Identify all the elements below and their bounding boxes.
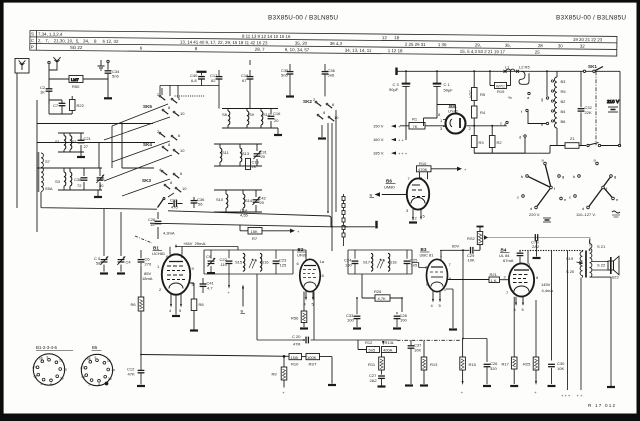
voltage selector 110-127V xyxy=(569,158,620,218)
svg-text:SK1: SK1 xyxy=(588,64,597,69)
output transformer core bar xyxy=(585,251,587,278)
svg-text:g: g xyxy=(541,97,543,102)
svg-text:150 V: 150 V xyxy=(373,124,384,129)
wire B5 cathode row y125.8 xyxy=(467,124,507,136)
long wire y354 bottom xyxy=(141,355,289,357)
svg-text:10: 10 xyxy=(59,359,63,363)
svg-text:2o: 2o xyxy=(112,368,116,372)
capacitor C34 5n6 xyxy=(105,63,121,98)
svg-text:220 V.: 220 V. xyxy=(529,212,540,217)
capacitor C6 270 xyxy=(138,250,152,267)
svg-text:R26: R26 xyxy=(374,289,382,294)
wire y223 to terminal xyxy=(344,226,348,228)
svg-text:5n6: 5n6 xyxy=(112,74,119,79)
vertical bundle wires xyxy=(111,126,113,168)
svg-text:S5A: S5A xyxy=(45,186,53,191)
agc dash-dot diagonal xyxy=(135,236,152,243)
tone coil S19 S20 xyxy=(566,250,583,277)
capacitor C24 190 xyxy=(344,250,358,274)
svg-text:C 20: C 20 xyxy=(292,334,301,339)
svg-text:B2: B2 xyxy=(298,247,304,252)
wire 60V node xyxy=(440,244,480,259)
resistor R6 xyxy=(131,265,144,354)
resistor RS2 xyxy=(467,227,484,251)
capacitor C30 10K xyxy=(548,361,566,386)
wire antenna box down xyxy=(16,73,18,208)
svg-text:+ +: + + xyxy=(398,138,404,143)
svg-text:R1: R1 xyxy=(412,117,418,122)
svg-text:15K: 15K xyxy=(251,229,258,234)
tuning indicator B6 UM80 xyxy=(384,176,429,214)
resistor R8 xyxy=(190,283,204,331)
wire antenna to LM7 xyxy=(49,70,69,79)
wire y85.5 to SK5 xyxy=(160,86,219,95)
IF1 coil S16 xyxy=(260,253,269,271)
wire diagonal links from switch banks xyxy=(104,104,174,197)
capacitor C26 15 xyxy=(148,212,161,239)
coupling drop x567 xyxy=(561,251,571,399)
svg-text:LM7: LM7 xyxy=(71,77,80,82)
resistor R56 xyxy=(291,292,308,329)
capacitor C41 4,7 xyxy=(200,278,215,293)
svg-text:C21: C21 xyxy=(84,136,92,141)
svg-text:o8: o8 xyxy=(87,357,91,361)
bundle drops to B1 caps xyxy=(104,209,121,256)
svg-text:145V: 145V xyxy=(541,282,551,287)
svg-text:B1: B1 xyxy=(153,246,159,251)
svg-text:2, 7, 21,30, 10, 5, 3: 2, 7, 21,30, 10, 5, 34, 8 6 12, 32 xyxy=(38,38,119,44)
long wire left rail to switch (y208) xyxy=(41,192,157,209)
filter LM7 R50 xyxy=(69,76,83,90)
svg-text:50µF: 50µF xyxy=(389,87,399,92)
mains dash-dot line xyxy=(595,71,597,145)
wire PSU bottom y153 xyxy=(474,146,550,154)
capacitor C26 320 xyxy=(483,361,498,386)
svg-text:210 V: 210 V xyxy=(607,99,620,104)
svg-text:10K: 10K xyxy=(557,366,564,371)
svg-text:28, 7: 28, 7 xyxy=(255,47,265,52)
label 85V 18mA xyxy=(142,271,153,281)
resistor R11 xyxy=(368,353,384,371)
svg-text:R15: R15 xyxy=(469,362,477,367)
IF1 coil S15 xyxy=(235,253,245,272)
ground under S1 cluster xyxy=(77,152,85,157)
wire right mains drop xyxy=(619,71,621,145)
svg-text:R17: R17 xyxy=(502,362,510,367)
svg-text:110: 110 xyxy=(221,262,228,267)
svg-text:SG 22: SG 22 xyxy=(70,45,83,50)
capacitor C29 xyxy=(462,247,480,263)
svg-text:67mA: 67mA xyxy=(503,258,514,263)
IF2 coil S17 xyxy=(363,253,373,271)
battery 210V xyxy=(607,99,620,112)
svg-text:R2: R2 xyxy=(497,140,503,145)
svg-text:10: 10 xyxy=(107,359,111,363)
svg-text:35,: 35, xyxy=(505,43,511,48)
svg-text:9: 9 xyxy=(95,356,97,360)
svg-text:o7: o7 xyxy=(81,366,85,370)
svg-text:S2: S2 xyxy=(72,139,78,144)
svg-text:R11: R11 xyxy=(368,362,376,367)
svg-text:8 11 13 9 12 14 10 15: 8 11 13 9 12 14 10 15 16 xyxy=(242,34,291,39)
svg-text:72: 72 xyxy=(77,183,82,188)
svg-text:SK5: SK5 xyxy=(143,104,152,109)
svg-text:7n5: 7n5 xyxy=(411,263,418,268)
ground below C34 xyxy=(104,97,112,99)
svg-text:1a: 1a xyxy=(320,259,325,264)
terminal bar top feed xyxy=(395,68,397,76)
potentiometer box R10 1N5 xyxy=(289,354,302,367)
capacitor C7 + resistor R22 xyxy=(49,96,85,114)
switch position table band xyxy=(30,31,617,57)
svg-text:56: 56 xyxy=(198,202,203,207)
svg-text:c: c xyxy=(500,121,502,126)
svg-text:R 17 012: R 17 012 xyxy=(588,403,616,408)
ground top xyxy=(98,60,110,70)
B4 pin3 stub xyxy=(527,251,529,264)
svg-text:110–127 V.: 110–127 V. xyxy=(576,212,596,217)
dial bus with ferrite ticks xyxy=(342,194,345,246)
svg-text:28: 28 xyxy=(538,43,543,48)
svg-text:160 V.: 160 V. xyxy=(373,137,384,142)
B4 bottom pins 4 5 xyxy=(514,297,525,312)
svg-text:C 1: C 1 xyxy=(444,82,451,87)
svg-text:270: 270 xyxy=(145,262,152,267)
svg-text:58: 58 xyxy=(96,261,101,266)
svg-text:4,3mA: 4,3mA xyxy=(163,231,175,236)
capacitor C23 125 xyxy=(273,250,288,274)
svg-text:+84V 29mA.: +84V 29mA. xyxy=(183,241,206,246)
svg-text:3o: 3o xyxy=(108,377,112,381)
svg-text:S: S xyxy=(31,32,34,37)
tuned circuit S3 S4 C38 C40 xyxy=(55,168,105,190)
wire SK2 drops x328 x332 x336 xyxy=(328,110,336,251)
svg-text:13, 14 41 40 9, 17, 22, 29,: 13, 14 41 40 9, 17, 22, 29, 15 18 11 42 … xyxy=(180,40,268,46)
svg-text:R13: R13 xyxy=(430,362,438,367)
resistor R17 xyxy=(502,357,519,386)
svg-text:g: g xyxy=(614,174,616,179)
capacitor C36 56 xyxy=(191,197,206,208)
svg-text:9, 10, 34, 57: 9, 10, 34, 57 xyxy=(285,47,310,52)
wire SK5 branch x122 xyxy=(37,124,153,169)
trimmer C5 58 xyxy=(94,256,108,274)
svg-text:R50: R50 xyxy=(72,84,80,89)
capacitor C1 50uF xyxy=(424,71,454,126)
volume control boxes R12 R14L xyxy=(358,340,397,353)
B1 cathode ground xyxy=(172,295,180,317)
svg-text:RS2: RS2 xyxy=(467,236,476,241)
svg-text:5n6: 5n6 xyxy=(281,73,288,78)
screen drop to R25 xyxy=(535,300,537,357)
svg-text:R10: R10 xyxy=(291,362,299,367)
svg-text:C7: C7 xyxy=(53,103,59,108)
resistor R10 470K xyxy=(417,161,468,179)
svg-text:10: 10 xyxy=(180,111,185,116)
svg-text:S15: S15 xyxy=(235,260,243,265)
lamp terminal circle xyxy=(527,92,530,100)
resistor R21 1K xyxy=(448,272,510,283)
svg-text:R6: R6 xyxy=(131,302,137,307)
svg-text:o7: o7 xyxy=(33,366,37,370)
wire bundle x99 to S3 cluster xyxy=(98,143,100,169)
svg-text:B4: B4 xyxy=(501,248,507,253)
label 84V 29mA on wire xyxy=(176,241,238,250)
svg-text:67: 67 xyxy=(242,78,247,83)
C22 ground + xyxy=(207,273,231,295)
wires C17 C18 down to S8 unit xyxy=(219,60,250,109)
capacitor C22 110 xyxy=(220,250,233,286)
switch SK1 xyxy=(557,64,620,73)
svg-text:R25: R25 xyxy=(523,362,531,367)
svg-text:+ + +: + + + xyxy=(398,151,408,156)
svg-text:20: 20 xyxy=(260,200,265,205)
svg-text:B5: B5 xyxy=(449,103,455,108)
B3 bottom pins 4 5 xyxy=(431,291,442,308)
antenna coil S7 with core xyxy=(37,152,53,192)
svg-text:320: 320 xyxy=(490,366,497,371)
svg-text:3o: 3o xyxy=(60,377,64,381)
svg-text:c: c xyxy=(569,195,571,200)
resistor R3 xyxy=(471,136,484,154)
svg-text:S16: S16 xyxy=(262,260,270,265)
wire y212 SK2 loop xyxy=(168,211,331,227)
switch contact on mains xyxy=(587,143,621,147)
pentode B2 UF89 xyxy=(297,247,325,292)
capacitor C32 xyxy=(578,71,593,145)
svg-text:470: 470 xyxy=(171,205,178,210)
svg-text:SK4: SK4 xyxy=(143,142,152,147)
trimmer C9 xyxy=(206,250,215,274)
core arrows S17 S18 xyxy=(377,259,384,269)
185V tap row xyxy=(373,151,408,157)
svg-text:S1: S1 xyxy=(55,139,61,144)
resistor R2 xyxy=(489,126,502,153)
switch bank SK2 xyxy=(303,97,339,121)
svg-text:1 12 18: 1 12 18 xyxy=(388,48,403,53)
svg-text:2o: 2o xyxy=(64,368,68,372)
resistor R4 NTC stack xyxy=(468,71,486,126)
svg-text:125: 125 xyxy=(280,263,287,268)
fuse Z1 xyxy=(550,136,586,148)
box RST 100K xyxy=(302,354,337,386)
svg-text:R7: R7 xyxy=(252,236,258,241)
IF2 transformer rails xyxy=(348,250,412,274)
svg-text:UBC 81: UBC 81 xyxy=(420,253,435,258)
ground under S3 cluster xyxy=(94,190,102,197)
svg-text:S10: S10 xyxy=(263,112,271,117)
svg-text:15, 5 4,3 53 2 21 19 17: 15, 5 4,3 53 2 21 19 17 xyxy=(460,49,506,54)
svg-text:C16: C16 xyxy=(273,111,281,116)
node e circle xyxy=(528,111,549,128)
svg-text:4: 4 xyxy=(50,382,52,386)
svg-text:1N5: 1N5 xyxy=(291,355,299,360)
svg-text:47K: 47K xyxy=(128,372,135,377)
svg-text:o6: o6 xyxy=(82,375,86,379)
svg-text:190: 190 xyxy=(345,263,352,268)
svg-text:R56: R56 xyxy=(291,316,299,321)
frame top bar xyxy=(0,0,640,3)
resistor R9 xyxy=(272,356,287,396)
svg-text:g: g xyxy=(562,174,564,179)
svg-text:47R: 47R xyxy=(293,342,300,347)
wire C7/R22 bottom join xyxy=(49,100,72,114)
resistor R15 xyxy=(460,339,477,396)
svg-text:30: 30 xyxy=(558,43,563,48)
resistor R19 mains dropper xyxy=(490,71,513,100)
voltage selector 220V xyxy=(517,158,567,223)
svg-text:2A2: 2A2 xyxy=(532,244,540,249)
svg-text:R3: R3 xyxy=(479,140,485,145)
antenna input box xyxy=(15,59,29,74)
dash-dot AVC wire xyxy=(382,340,461,345)
svg-text:4,7: 4,7 xyxy=(207,286,213,291)
svg-text:2K: 2K xyxy=(252,164,257,169)
svg-text:C38: C38 xyxy=(74,177,82,182)
secondary drop x580 xyxy=(577,278,583,399)
wire long y224 xyxy=(150,223,375,227)
svg-text:1K: 1K xyxy=(40,90,45,95)
capacitor C13 470 xyxy=(168,198,183,210)
B3 grid top wire xyxy=(440,250,442,260)
resistor 2K under S13 xyxy=(246,159,260,170)
svg-text:R5: R5 xyxy=(480,92,486,97)
capacitor C33 100 xyxy=(346,297,361,328)
switch bank SK5 xyxy=(143,92,185,116)
svg-text:100K: 100K xyxy=(307,355,317,360)
node f circle xyxy=(521,109,528,114)
resistor R25 xyxy=(523,357,539,395)
svg-text:5n5: 5n5 xyxy=(369,348,376,353)
svg-text:1 K: 1 K xyxy=(491,278,497,283)
tuned circuit S10 S14 C42 xyxy=(214,190,267,212)
dotted mech link under SK5 xyxy=(175,95,205,97)
svg-text:S17: S17 xyxy=(363,260,371,265)
svg-text:R5: R5 xyxy=(561,89,567,94)
frame left bar xyxy=(0,0,4,421)
triode B3 UBC81 xyxy=(420,247,453,292)
FM unit coils S8 S9 C16 xyxy=(222,109,281,129)
svg-text:S8: S8 xyxy=(222,112,228,117)
svg-text:UCH81: UCH81 xyxy=(152,251,166,256)
svg-text:B1-2-3-4-6: B1-2-3-4-6 xyxy=(36,345,58,350)
svg-text:25: 25 xyxy=(535,50,540,55)
svg-text:29,: 29, xyxy=(475,43,481,48)
dial lamp feed line gray xyxy=(484,235,590,246)
svg-text:S23: S23 xyxy=(612,275,620,280)
svg-text:RST: RST xyxy=(309,362,318,367)
svg-text:C4: C4 xyxy=(126,260,132,265)
node c circle xyxy=(500,121,508,126)
mains transformer primary with taps xyxy=(551,72,566,146)
trimmer C4 xyxy=(117,256,131,273)
svg-text:5: 5 xyxy=(89,383,91,387)
triode-heptode B1 UCH81 xyxy=(152,246,195,295)
capacitor C3 50uF xyxy=(389,71,410,140)
wire SK3 horizontal xyxy=(122,167,154,169)
capacitor C35 5n6 xyxy=(281,64,294,97)
wire B5 anode top xyxy=(437,105,456,114)
dial lamp loop xyxy=(519,71,529,84)
svg-text:o6: o6 xyxy=(34,375,38,379)
svg-text:6,8: 6,8 xyxy=(191,78,197,83)
svg-text:4,7K: 4,7K xyxy=(378,296,387,301)
svg-text:SK2: SK2 xyxy=(303,99,312,104)
capacitor C25 xyxy=(404,250,419,274)
svg-text:R22: R22 xyxy=(77,103,85,108)
resistor R26 4,7K xyxy=(362,274,402,312)
capacitor C37 10K xyxy=(405,340,422,385)
capacitor C28 100 xyxy=(393,312,408,329)
B6 bottom pins xyxy=(409,209,426,222)
svg-text:S10: S10 xyxy=(216,197,224,202)
150V tap row xyxy=(373,124,401,130)
svg-text:W7C: W7C xyxy=(496,84,505,89)
svg-text:19 20 21 22 23: 19 20 21 22 23 xyxy=(573,37,603,42)
svg-text:C13: C13 xyxy=(170,198,178,203)
svg-text:7K: 7K xyxy=(413,124,418,129)
capacitor C27 2A2 xyxy=(369,370,386,387)
frame right bar xyxy=(637,0,640,421)
svg-text:R14L: R14L xyxy=(385,340,395,345)
output transformer S21 S22 xyxy=(589,239,611,277)
svg-text:7,34, 1,3,2,4: 7,34, 1,3,2,4 xyxy=(38,32,63,37)
node B arrow xyxy=(241,285,246,314)
capacitor C12 47K xyxy=(127,355,145,387)
ground under S8 cluster xyxy=(274,128,282,135)
svg-text:470K: 470K xyxy=(418,167,428,172)
svg-text:B3: B3 xyxy=(561,79,567,84)
plate line drop with C30 xyxy=(551,251,553,361)
svg-text:22K: 22K xyxy=(585,110,592,115)
wire y340 with C20 xyxy=(257,274,397,347)
capacitor C36 5n6 top xyxy=(322,64,336,96)
resistor R7 15K with arrow xyxy=(240,225,300,242)
wire LM7 to C34 node xyxy=(83,78,108,80)
wires from band down to SK5 xyxy=(162,85,178,98)
IF2 coil S18 xyxy=(388,253,397,271)
wire SK4 long horizontal xyxy=(37,142,155,144)
svg-text:36 4,3: 36 4,3 xyxy=(330,41,343,46)
B4 grid cap xyxy=(517,251,524,264)
B3 cathode ground xyxy=(446,289,457,330)
svg-text:S 22: S 22 xyxy=(597,263,606,268)
tuned circuit S11 S13 C31 xyxy=(214,144,268,166)
tube socket B5 xyxy=(81,345,116,387)
svg-text:SK3: SK3 xyxy=(142,178,151,183)
svg-text:S11: S11 xyxy=(222,150,230,155)
svg-text:S 21: S 21 xyxy=(597,244,606,249)
svg-text:R8: R8 xyxy=(199,302,205,307)
svg-text:32: 32 xyxy=(580,44,585,49)
svg-text:9: 9 xyxy=(47,355,49,359)
svg-text:30: 30 xyxy=(99,183,104,188)
svg-text:B3X85U-00 / B3LN85U: B3X85U-00 / B3LN85U xyxy=(268,15,338,22)
svg-text:S3: S3 xyxy=(55,179,61,184)
svg-text:S7: S7 xyxy=(45,159,51,164)
svg-text:50µF: 50µF xyxy=(444,88,454,93)
svg-text:B4: B4 xyxy=(561,109,567,114)
dotted grid line xyxy=(520,250,585,252)
svg-text:C40: C40 xyxy=(97,176,105,181)
wire y338.5 and C26 branch xyxy=(463,339,487,385)
switch bank SK3 xyxy=(142,167,187,192)
svg-text:20: 20 xyxy=(274,118,279,123)
B1 bottom pins 4 5 xyxy=(169,294,182,313)
speaker return drop xyxy=(607,277,615,387)
svg-text:185 V.: 185 V. xyxy=(373,151,384,156)
svg-text:C: C xyxy=(31,38,34,43)
svg-text:S 20: S 20 xyxy=(566,269,575,274)
